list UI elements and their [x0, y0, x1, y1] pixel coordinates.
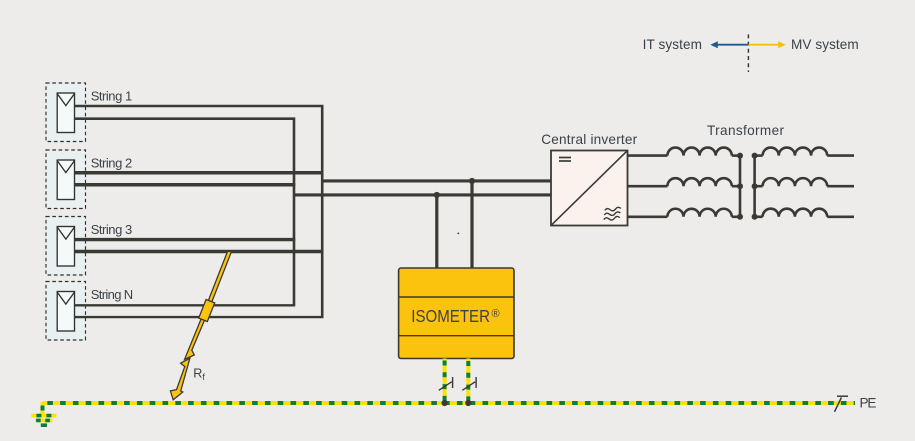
svg-text:Central inverter: Central inverter — [541, 132, 637, 147]
wire string3 negative — [75, 250, 323, 253]
PV string 1 (module box) — [46, 83, 86, 142]
junction dot right earth on PE — [465, 400, 471, 406]
system divider dashed line — [747, 34, 749, 72]
wire ISOMETER tap right (drop to device) — [470, 181, 473, 268]
wire primary L1 to star point — [732, 154, 740, 157]
wire string1 positive to bus2 — [75, 106, 323, 317]
transformer secondary winding L1 — [763, 148, 828, 156]
wire inverter output L1 — [628, 154, 668, 157]
junction dots primary star — [737, 153, 743, 159]
transformer secondary winding L2 — [763, 178, 828, 186]
fault resistance Rf lightning arrow — [170, 252, 231, 400]
wire stringN negative to bus2 bottom — [75, 316, 324, 318]
svg-text:String 1: String 1 — [91, 88, 133, 103]
transformer secondary star bus — [753, 156, 756, 217]
PV string 2 (module box) — [46, 150, 86, 209]
wire MV output L1 — [827, 154, 854, 157]
PV string 3 (module box) — [46, 217, 86, 276]
wire inverter output L3 — [628, 216, 668, 219]
stray dot — [457, 233, 459, 235]
svg-text:ISOMETER: ISOMETER — [411, 306, 490, 326]
PE conductor (green/yellow striped) — [43, 401, 856, 405]
PV string N (module box) — [46, 282, 86, 341]
disconnect symbol left earth wire — [439, 377, 453, 390]
wire primary L3 to star point — [732, 216, 740, 219]
wire MV output L2 — [827, 185, 854, 188]
arrow IT system (blue, pointing left) — [710, 41, 748, 48]
transformer primary winding L2 — [667, 178, 731, 186]
DC symbol — [559, 157, 571, 159]
ISOMETER U1 (insulation monitoring device) — [399, 268, 514, 359]
svg-text:IT system: IT system — [643, 37, 702, 52]
wire PE drop right (green/yellow) — [466, 359, 470, 404]
wire DC link upper (from bus2 to inverter) — [321, 179, 551, 182]
wire MV output L3 — [827, 216, 854, 219]
svg-text:Transformer: Transformer — [707, 123, 784, 138]
wire string2 positive — [75, 171, 323, 175]
ground symbol left end of PE — [31, 402, 56, 425]
wire DC link lower (from bus1 to inverter) — [294, 193, 551, 196]
arrow MV system (yellow, pointing right) — [748, 41, 785, 48]
wire primary L2 to star point — [732, 185, 740, 188]
junction dot left tap — [434, 192, 440, 198]
svg-text:®: ® — [492, 308, 500, 320]
transformer primary winding L1 — [667, 148, 731, 156]
wire inverter output L2 — [628, 185, 668, 188]
wire PE drop left (green/yellow) — [443, 359, 447, 404]
wire string1 negative to bus1 — [75, 119, 295, 306]
svg-text:String 2: String 2 — [91, 155, 133, 170]
disconnect symbol on PE near right end — [835, 396, 849, 412]
wire secondary star to winding L1 — [755, 154, 763, 157]
transformer primary star bus — [739, 156, 742, 217]
wire ISOMETER tap left (drop to device) — [435, 195, 438, 268]
junction dots secondary star — [752, 153, 758, 159]
transformer secondary winding L3 — [763, 209, 828, 217]
AC symbol (3 waves) — [602, 207, 622, 221]
svg-text:MV system: MV system — [791, 37, 859, 52]
svg-text:String 3: String 3 — [91, 222, 133, 237]
transformer primary winding L3 — [667, 209, 731, 217]
junction dot left earth on PE — [442, 400, 448, 406]
svg-text:String N: String N — [91, 287, 134, 302]
central inverter U2 — [551, 151, 628, 226]
svg-text:PE: PE — [860, 395, 877, 410]
wire string2 negative — [75, 183, 296, 187]
junction dot right tap — [469, 178, 475, 184]
disconnect symbol right earth wire — [462, 377, 476, 390]
wire string3 positive — [75, 238, 296, 241]
wire stringN positive to bus1 bottom — [75, 304, 296, 306]
